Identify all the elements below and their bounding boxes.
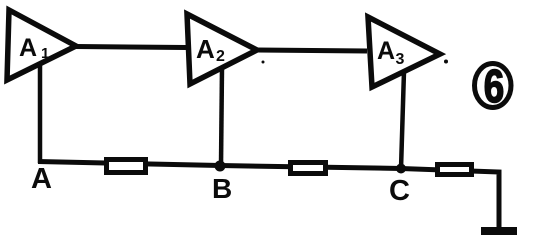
- svg-text:A: A: [31, 163, 52, 195]
- svg-text:C: C: [389, 175, 410, 207]
- svg-text:2: 2: [216, 48, 225, 65]
- svg-text:A: A: [377, 37, 395, 65]
- svg-text:B: B: [212, 173, 232, 204]
- svg-text:1: 1: [41, 45, 49, 62]
- svg-text:3: 3: [396, 51, 405, 68]
- svg-text:A: A: [19, 34, 37, 62]
- svg-text:6: 6: [484, 60, 504, 112]
- svg-text:A: A: [196, 34, 215, 64]
